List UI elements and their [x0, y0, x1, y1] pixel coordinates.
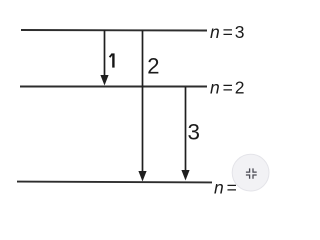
transition arrow 2 head — [138, 171, 146, 182]
transition arrow 3 head — [181, 170, 189, 181]
svg-text:2: 2 — [147, 53, 159, 78]
transition arrow 1 (n=3 to n=2) wire — [104, 30, 106, 76]
transition arrow 2 (n=3 to n=1) wire — [142, 31, 144, 173]
energy level line n=3 — [21, 29, 207, 32]
zoom button collapse icon — [246, 168, 257, 178]
svg-text:3: 3 — [188, 119, 201, 144]
transition arrow 1 head — [100, 75, 108, 86]
transition arrow 3 (n=2 to n=1) wire — [185, 87, 187, 171]
zoom button circle — [232, 154, 269, 191]
svg-text:n=3: n=3 — [210, 22, 245, 42]
energy level line n=2 — [20, 86, 207, 88]
svg-text:n=2: n=2 — [210, 77, 245, 97]
label 1 — [110, 53, 114, 67]
energy level line n=1 — [17, 181, 212, 184]
